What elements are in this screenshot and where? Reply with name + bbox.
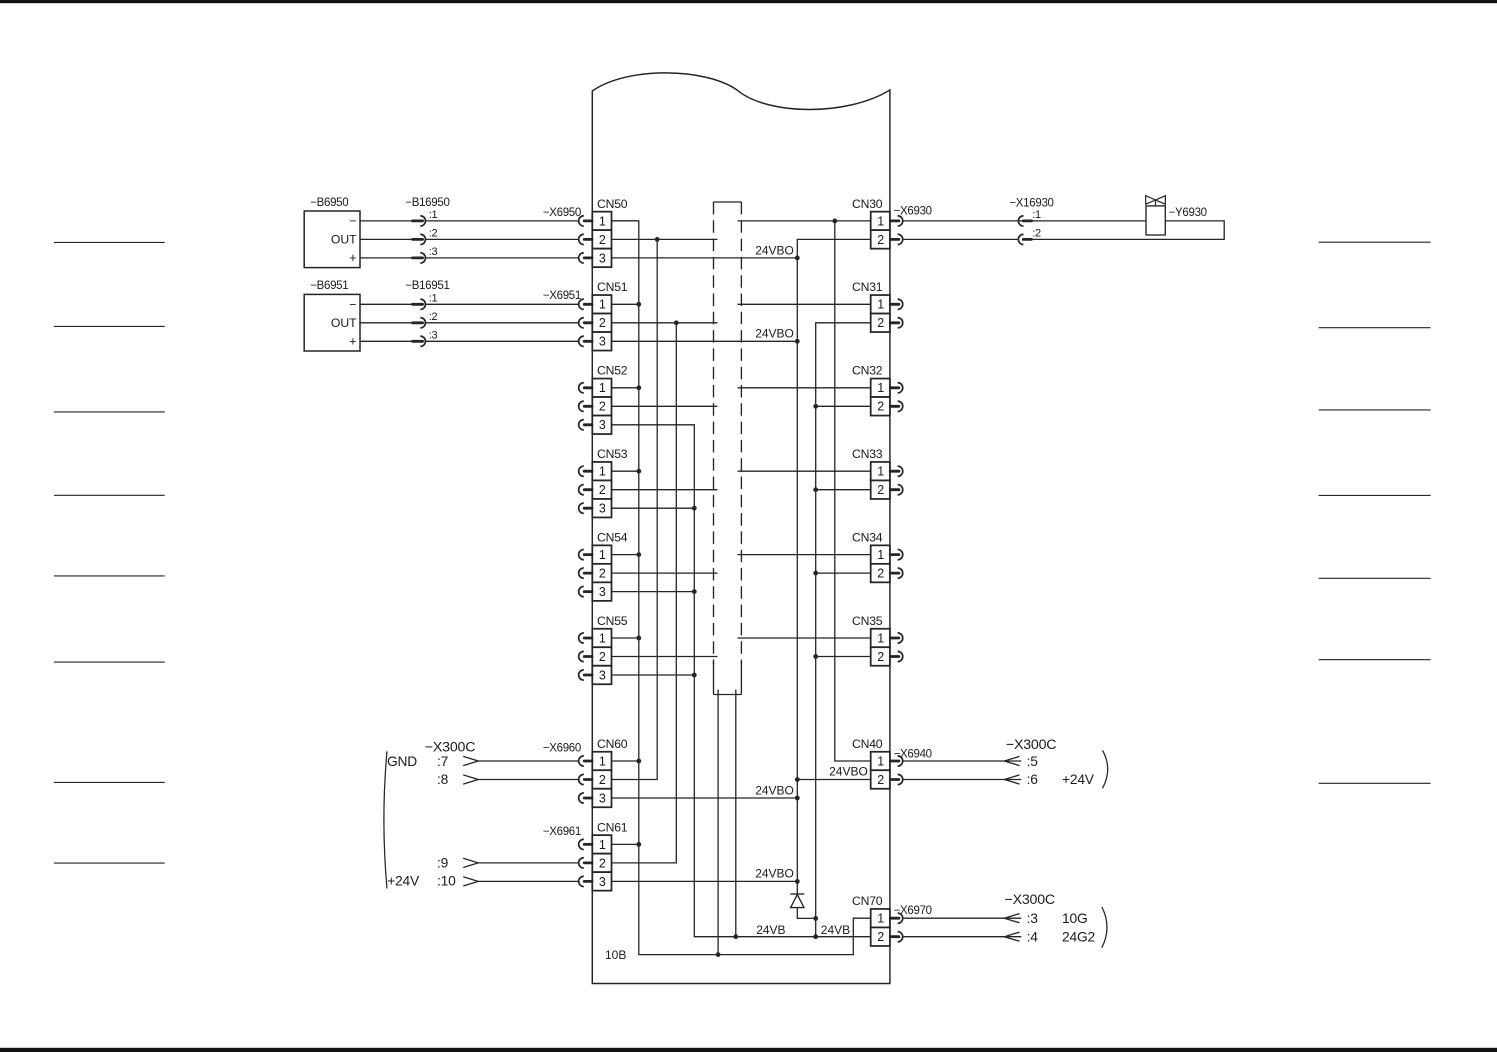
svg-text:OUT: OUT: [331, 233, 357, 247]
svg-text:24G2: 24G2: [1062, 929, 1095, 944]
svg-text:CN55: CN55: [597, 614, 628, 628]
svg-text::1: :1: [1032, 209, 1041, 221]
svg-text:−X6961: −X6961: [543, 826, 581, 838]
svg-text:+24V: +24V: [387, 874, 420, 889]
wire CN70.1 to X300C:3: [903, 914, 1021, 923]
inline connector B16951: [405, 280, 449, 346]
svg-text::3: :3: [429, 246, 438, 258]
wire B6950 pin 3: [360, 257, 412, 259]
wire CN32.2 stub: [816, 405, 871, 407]
wire net 24VBO (CN30.2 vertical V5): [795, 239, 871, 894]
wire CN60.3 24VBO: [612, 797, 798, 799]
wire CN54.3 stub: [612, 591, 695, 593]
connector CN51: [579, 280, 628, 350]
svg-text:CN70: CN70: [852, 894, 883, 908]
label :8: [437, 772, 449, 787]
wire CN55.2 to cable: [612, 656, 718, 658]
svg-text:3: 3: [599, 502, 606, 516]
cross-reference line right 6: [1319, 659, 1431, 661]
label :7: [437, 754, 448, 769]
net label 24VBO at CN50.3: [755, 243, 794, 257]
svg-text::1: :1: [429, 293, 438, 305]
svg-text:CN32: CN32: [852, 364, 883, 378]
wire B6950 pin 1: [360, 220, 412, 222]
svg-text:3: 3: [599, 251, 606, 265]
svg-text:2: 2: [877, 483, 884, 497]
wire CN53.3 stub: [612, 507, 695, 509]
wire CN32.1 from cable: [738, 387, 871, 389]
svg-text:CN31: CN31: [852, 280, 883, 294]
svg-text:CN35: CN35: [852, 614, 883, 628]
valve Y6930: [1146, 196, 1207, 235]
wire CN33.1 from cable: [738, 470, 871, 472]
svg-text::1: :1: [429, 209, 438, 221]
cross-reference line left 5: [54, 575, 165, 577]
svg-text:−X16930: −X16930: [1009, 198, 1053, 210]
connector label -X6960: [543, 743, 581, 755]
svg-text:3: 3: [599, 791, 606, 805]
cross-reference line right 1: [1319, 241, 1431, 243]
label :4: [1027, 929, 1039, 944]
connector CN52: [579, 364, 628, 434]
wire CN40.2 stub 24VBO: [797, 779, 870, 781]
wire CN51.2 to cable: [612, 322, 718, 324]
svg-text::9: :9: [437, 855, 449, 870]
wire CN31..35 pin-2 bus (V6) to 24VB: [813, 323, 870, 937]
connector CN54: [579, 530, 628, 600]
connector label -X6930: [894, 205, 932, 217]
connector CN61: [579, 820, 628, 890]
svg-text:2: 2: [877, 773, 884, 787]
svg-text::2: :2: [429, 228, 438, 240]
wire CN30.1 to CN40.1 (V7): [832, 219, 870, 762]
wire CN53.2 to cable: [612, 489, 718, 491]
harness label -X300C left: [425, 740, 475, 756]
wire X300C:8 to CN60.2: [463, 775, 579, 784]
svg-text:−B6951: −B6951: [310, 280, 348, 292]
net label 24VBO at CN51.3: [755, 327, 794, 341]
wire CN50.1 stub: [612, 220, 639, 222]
svg-text:1: 1: [599, 754, 606, 768]
wire CN55.1 stub: [612, 637, 639, 639]
svg-text:CN54: CN54: [597, 530, 628, 544]
svg-text:GND: GND: [387, 754, 417, 769]
wire CN70.2 to X300C:4: [903, 932, 1021, 941]
label GND: [387, 754, 417, 769]
inline connector X16930: [1009, 198, 1053, 245]
cross-reference line left 4: [54, 494, 165, 496]
wire CN55.3 stub: [612, 674, 695, 676]
svg-text:+24V: +24V: [1062, 772, 1095, 787]
svg-text:−X6951: −X6951: [543, 290, 581, 302]
svg-text:24VBO: 24VBO: [755, 783, 794, 797]
wire B6951 pin 1: [360, 303, 412, 305]
brace CN70 group: [1102, 907, 1107, 948]
svg-text:1: 1: [877, 381, 884, 395]
wire CN61.1 stub: [612, 843, 639, 845]
svg-text:CN60: CN60: [597, 737, 628, 751]
svg-text:CN33: CN33: [852, 447, 883, 461]
connector CN31: [852, 280, 903, 332]
wire net 10B (left pin-1 bus to CN70.1): [612, 221, 871, 957]
svg-text::10: :10: [437, 874, 456, 889]
wire CN30.1 to valve: [903, 220, 1146, 222]
connector label -X6961: [543, 826, 581, 838]
svg-text:OUT: OUT: [331, 316, 357, 330]
svg-text:3: 3: [599, 875, 606, 889]
svg-text:3: 3: [599, 668, 606, 682]
connector CN32: [852, 364, 903, 416]
svg-text::8: :8: [437, 772, 449, 787]
connector label -X6940: [894, 748, 932, 760]
brace left group: [384, 751, 387, 888]
svg-text:1: 1: [599, 838, 606, 852]
connector CN35: [852, 614, 903, 666]
label :10: [437, 874, 456, 889]
connector CN70: [852, 894, 903, 946]
label :3: [1027, 911, 1039, 926]
wire CN61.3 24VBO: [612, 880, 798, 882]
svg-text:CN61: CN61: [597, 820, 628, 834]
svg-text::6: :6: [1027, 772, 1039, 787]
label 24G2: [1062, 929, 1095, 944]
cross-reference line left 3: [54, 411, 165, 413]
diode V6930 (24VBO to 24VB): [790, 894, 818, 921]
svg-text:−X6960: −X6960: [543, 743, 581, 755]
wire CN35.1 from cable: [738, 637, 871, 639]
cross-reference line left 6: [54, 661, 165, 663]
svg-text::2: :2: [429, 311, 438, 323]
svg-text:CN53: CN53: [597, 447, 628, 461]
wire CN54.2 to cable: [612, 572, 718, 574]
svg-text:24VBO: 24VBO: [829, 765, 868, 779]
wire X300C:9 to CN61.2: [463, 858, 579, 867]
svg-text:2: 2: [877, 567, 884, 581]
svg-text:1: 1: [877, 631, 884, 645]
wire CN34.2 stub: [816, 572, 871, 574]
connector CN53: [579, 447, 628, 517]
inline connector B16950: [405, 197, 449, 263]
cross-reference line right 3: [1319, 409, 1431, 411]
svg-text:2: 2: [877, 930, 884, 944]
wire B16950:3 to board: [426, 257, 579, 259]
connector CN33: [852, 447, 903, 499]
brace CN40 group: [1103, 750, 1108, 788]
wire CN35.2 stub: [816, 656, 871, 658]
svg-text:−: −: [349, 214, 356, 228]
svg-text:−B6950: −B6950: [310, 197, 348, 209]
label +24V left: [387, 874, 420, 889]
svg-text:−B16950: −B16950: [405, 197, 449, 209]
svg-text:1: 1: [877, 214, 884, 228]
cross-reference line right 2: [1319, 327, 1431, 329]
wire B16951:1 to board: [426, 303, 579, 305]
svg-text:10G: 10G: [1062, 911, 1087, 926]
connector label -X6951: [543, 290, 581, 302]
svg-text:−: −: [349, 298, 356, 312]
connector CN30: [852, 197, 903, 249]
svg-text:3: 3: [599, 418, 606, 432]
wire CN52.1 stub: [612, 387, 639, 389]
svg-text:24VBO: 24VBO: [755, 243, 794, 257]
svg-text:2: 2: [599, 483, 606, 497]
svg-text:2: 2: [599, 233, 606, 247]
svg-text:CN50: CN50: [597, 197, 628, 211]
svg-text:CN51: CN51: [597, 280, 628, 294]
svg-text:2: 2: [599, 567, 606, 581]
cross-reference line left 1: [54, 241, 165, 243]
label +24V right: [1062, 772, 1095, 787]
net label 24VBO at CN60.3: [755, 783, 794, 797]
svg-text:24VBO: 24VBO: [755, 327, 794, 341]
svg-text:+: +: [349, 335, 356, 349]
net label 10B: [605, 948, 626, 962]
svg-text:2: 2: [599, 856, 606, 870]
label :5: [1027, 754, 1039, 769]
svg-text:1: 1: [877, 298, 884, 312]
net label 24VBO at CN61.3: [755, 867, 794, 881]
svg-text:3: 3: [599, 585, 606, 599]
cable shield W1 (dashed outline): [714, 202, 742, 695]
svg-text:10B: 10B: [605, 948, 626, 962]
svg-text:1: 1: [599, 465, 606, 479]
svg-text:+: +: [349, 251, 356, 265]
PCB module 10B outline (torn top edge): [592, 73, 890, 984]
connector CN55: [579, 614, 628, 684]
svg-text::4: :4: [1027, 929, 1039, 944]
wire B6950 pin 2: [360, 238, 412, 240]
wire valve return loop: [1032, 221, 1225, 240]
connector CN60: [579, 737, 628, 807]
svg-text:−B16951: −B16951: [405, 280, 449, 292]
label 10G: [1062, 911, 1087, 926]
wire CN60.1 stub: [612, 760, 639, 762]
svg-text:24VB: 24VB: [756, 923, 785, 937]
wire B6951 pin 2: [360, 322, 412, 324]
svg-text:CN30: CN30: [852, 197, 883, 211]
wire B16951:3 to board: [426, 340, 579, 342]
wire CN50.3 24VBO: [612, 257, 798, 259]
wire CN51.1 stub: [612, 303, 639, 305]
cross-reference line right 7: [1319, 782, 1431, 784]
svg-text:1: 1: [599, 298, 606, 312]
svg-text:−X6950: −X6950: [543, 207, 581, 219]
border top bar: [0, 0, 1497, 3]
svg-text:2: 2: [599, 400, 606, 414]
label :9: [437, 855, 449, 870]
svg-text:2: 2: [877, 316, 884, 330]
svg-text:2: 2: [599, 773, 606, 787]
harness label -X300C at CN70: [1005, 892, 1055, 908]
svg-text:−X6970: −X6970: [894, 905, 932, 917]
wire CN40.2 to X300C:6: [903, 775, 1021, 784]
transducer B6951: [304, 280, 360, 351]
svg-text:−X6940: −X6940: [894, 748, 932, 760]
svg-text:2: 2: [877, 400, 884, 414]
svg-text:1: 1: [599, 548, 606, 562]
svg-text:CN52: CN52: [597, 364, 628, 378]
svg-text:1: 1: [599, 631, 606, 645]
svg-text::7: :7: [437, 754, 448, 769]
wire CN54.1 stub: [612, 554, 639, 556]
connector CN40: [852, 737, 903, 789]
wire B16950:2 to board: [426, 238, 579, 240]
connector CN50: [579, 197, 628, 267]
border bottom bar: [0, 1048, 1497, 1052]
svg-text:2: 2: [877, 650, 884, 664]
svg-text:1: 1: [877, 912, 884, 926]
svg-text:−X300C: −X300C: [425, 740, 475, 756]
net label 24VBO at CN40.2: [829, 765, 868, 779]
wire CN50.2 to CN60.2 (V2): [612, 237, 660, 780]
net label 24VB left: [756, 923, 785, 937]
cross-reference line left 8: [54, 862, 165, 864]
svg-text:1: 1: [877, 548, 884, 562]
svg-text::2: :2: [1032, 228, 1041, 240]
svg-text:−X300C: −X300C: [1006, 737, 1056, 753]
cross-reference line right 4: [1319, 494, 1431, 496]
connector label -X6950: [543, 207, 581, 219]
svg-text:−X300C: −X300C: [1005, 892, 1055, 908]
wire cable core to 24VB net: [735, 690, 737, 937]
svg-text:1: 1: [877, 465, 884, 479]
wire B16951:2 to board: [426, 322, 579, 324]
svg-text:24VB: 24VB: [821, 923, 850, 937]
wire CN30.1 from cable: [738, 220, 871, 222]
svg-text:2: 2: [599, 650, 606, 664]
wire CN30.2 to connector: [903, 238, 1019, 240]
svg-text:CN34: CN34: [852, 530, 883, 544]
net label 24VB right: [821, 923, 850, 937]
label :6: [1027, 772, 1039, 787]
svg-text:3: 3: [599, 335, 606, 349]
harness label -X300C at CN40: [1006, 737, 1056, 753]
wire CN52.2 to cable: [612, 405, 718, 407]
wire X300C:7 to CN60.1: [463, 756, 579, 765]
wire CN51.3 24VBO: [612, 340, 798, 342]
svg-text::3: :3: [1027, 911, 1039, 926]
svg-text:2: 2: [877, 233, 884, 247]
svg-text:24VBO: 24VBO: [755, 867, 794, 881]
svg-text:−X6930: −X6930: [894, 205, 932, 217]
wire cable core to 10B net: [717, 690, 719, 955]
wire B16950:1 to board: [426, 220, 579, 222]
connector CN34: [852, 530, 903, 582]
svg-text:CN40: CN40: [852, 737, 883, 751]
wire CN51.2 to CN61.2 (V3): [612, 320, 679, 863]
svg-text:1: 1: [877, 754, 884, 768]
wire B6951 pin 3: [360, 340, 412, 342]
wire X300C:10 to CN61.3: [463, 877, 579, 886]
wire CN31.1 from cable: [738, 303, 871, 305]
wire CN53.1 stub: [612, 470, 639, 472]
svg-text:2: 2: [599, 316, 606, 330]
wire net 24VB (CN52..55 pin-3 bus to CN70.2): [612, 425, 871, 939]
cross-reference line right 5: [1319, 577, 1431, 579]
transducer B6950: [304, 197, 360, 268]
svg-text:1: 1: [599, 214, 606, 228]
wire CN50.2 to cable: [612, 238, 718, 240]
connector label -X6970: [894, 905, 932, 917]
wire CN34.1 from cable: [738, 554, 871, 556]
cross-reference line left 7: [54, 781, 165, 783]
svg-text:−Y6930: −Y6930: [1169, 207, 1207, 219]
svg-text:1: 1: [599, 381, 606, 395]
svg-text::5: :5: [1027, 754, 1039, 769]
wire CN33.2 stub: [816, 489, 871, 491]
cross-reference line left 2: [54, 325, 165, 327]
svg-text::3: :3: [429, 330, 438, 342]
wire CN40.1 to X300C:5: [903, 756, 1021, 765]
